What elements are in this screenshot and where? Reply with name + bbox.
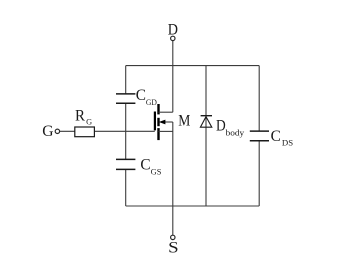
node S terminal (168, 235, 179, 256)
wire gate horizontal (60, 130, 155, 132)
svg-text:DS: DS (282, 139, 293, 148)
svg-text:GD: GD (146, 98, 157, 107)
svg-text:C: C (136, 85, 146, 104)
node G terminal (42, 121, 59, 140)
svg-text:GS: GS (151, 168, 162, 177)
wire bottom rail S node (126, 205, 260, 207)
transistor M (MOSFET) (155, 104, 190, 140)
capacitor CDS (250, 126, 293, 148)
svg-text:C: C (271, 126, 281, 145)
svg-text:S: S (168, 238, 179, 257)
diode Dbody (200, 116, 245, 138)
svg-text:G: G (86, 117, 92, 126)
svg-text:D: D (168, 20, 178, 39)
wire source vertical (172, 122, 174, 235)
wire diode branch vertical (205, 66, 207, 206)
svg-text:C: C (140, 155, 150, 174)
svg-text:body: body (226, 127, 245, 137)
wire top rail D node (126, 65, 260, 67)
svg-text:R: R (75, 105, 85, 124)
wire left branch vertical (Cgd/Cgs) (125, 66, 127, 206)
node D terminal (168, 20, 178, 41)
capacitor CGS (116, 155, 161, 177)
capacitor CGD (116, 85, 157, 107)
wire drain vertical (172, 41, 174, 112)
svg-text:G: G (42, 121, 54, 140)
resistor RG (75, 105, 95, 136)
svg-text:M: M (178, 110, 190, 129)
svg-text:D: D (216, 116, 226, 135)
wire Cds branch vertical (258, 66, 260, 206)
